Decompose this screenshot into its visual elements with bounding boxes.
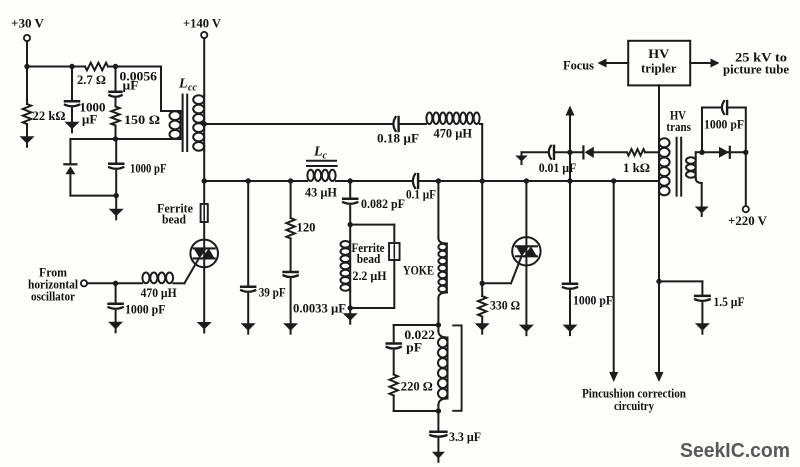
svg-text:43 µH: 43 µH [305,186,337,200]
svg-text:bead: bead [162,213,186,227]
svg-text:3.3 µF: 3.3 µF [449,430,481,444]
svg-text:0.18 µF: 0.18 µF [377,132,419,146]
svg-text:bead: bead [357,252,381,266]
svg-text:YOKE: YOKE [403,264,434,278]
svg-text:c: c [323,151,328,162]
svg-text:0.0033 µF: 0.0033 µF [293,302,346,316]
svg-text:Focus: Focus [563,59,594,73]
svg-text:0.082 pF: 0.082 pF [361,197,405,211]
svg-text:2.2 µH: 2.2 µH [353,269,387,283]
svg-text:1000 pF: 1000 pF [125,303,166,317]
svg-text:1.5 µF: 1.5 µF [714,295,745,309]
svg-text:+140 V: +140 V [183,17,221,31]
svg-text:+220 V: +220 V [728,214,767,228]
svg-text:1000 pF: 1000 pF [130,162,167,176]
svg-text:trans: trans [666,120,691,134]
svg-text:470 µH: 470 µH [141,286,177,300]
svg-text:0.01 µF: 0.01 µF [539,161,577,175]
svg-text:470 µH: 470 µH [434,127,473,141]
svg-text:39 pF: 39 pF [259,286,286,300]
svg-text:picture tube: picture tube [723,63,789,77]
svg-text:L: L [178,77,188,92]
svg-text:1000 pF: 1000 pF [573,294,613,308]
svg-text:L: L [313,145,323,160]
svg-text:1 kΩ: 1 kΩ [623,161,650,175]
svg-text:150 Ω: 150 Ω [124,113,160,127]
svg-text:circuitry: circuitry [614,399,655,413]
svg-text:120: 120 [297,221,316,235]
svg-text:1000 pF: 1000 pF [704,118,744,132]
svg-text:pF: pF [406,341,422,355]
svg-text:oscillator: oscillator [31,290,75,304]
svg-text:+30 V: +30 V [11,17,44,31]
svg-text:HV: HV [648,47,669,61]
svg-text:cc: cc [188,83,197,94]
svg-text:0.1 µF: 0.1 µF [406,188,436,202]
svg-text:SeekIC.com: SeekIC.com [680,440,790,462]
svg-text:tripler: tripler [641,62,677,76]
svg-text:330 Ω: 330 Ω [490,299,520,313]
svg-text:220 Ω: 220 Ω [401,380,433,394]
svg-text:µF: µF [123,79,139,93]
svg-text:µF: µF [82,113,98,127]
svg-text:2.7 Ω: 2.7 Ω [77,73,106,87]
svg-text:22 kΩ: 22 kΩ [33,109,66,123]
